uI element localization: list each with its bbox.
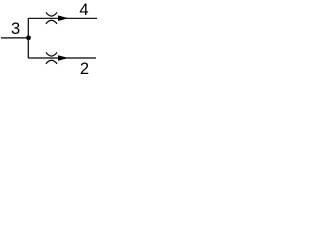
svg-text:2: 2 — [80, 60, 89, 77]
svg-text:3: 3 — [11, 20, 20, 38]
svg-text:4: 4 — [79, 1, 88, 19]
